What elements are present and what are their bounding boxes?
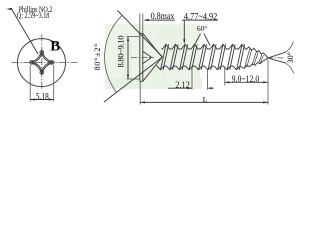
phillips recess outer xyxy=(29,50,54,74)
80 deg angle lines xyxy=(104,11,163,103)
recess side profile xyxy=(143,51,152,63)
dim 2.12 xyxy=(168,69,214,90)
svg-text:30°: 30° xyxy=(286,52,295,64)
dim 8.80~9.10 xyxy=(115,36,139,80)
80 deg arc xyxy=(105,15,123,92)
head side outline xyxy=(140,33,162,81)
phillips recess inner xyxy=(32,53,52,72)
dim 9.0~12.0 xyxy=(225,67,268,86)
watermark bar vertical left xyxy=(123,38,132,79)
svg-text:L: L xyxy=(203,95,208,104)
dim 0.8max xyxy=(140,10,175,33)
watermark block upper right xyxy=(176,29,187,46)
dim 4.77~4.92 xyxy=(182,11,218,44)
thread coil bands xyxy=(161,44,264,70)
svg-text:4.77~4.92: 4.77~4.92 xyxy=(184,11,217,21)
svg-text:Q: 2.59~3.18: Q: 2.59~3.18 xyxy=(17,11,50,20)
head front view circle xyxy=(18,39,66,87)
svg-text:9.0~12.0: 9.0~12.0 xyxy=(232,73,260,84)
tip 30 deg lines xyxy=(269,42,296,74)
watermark bar bottom left xyxy=(109,78,143,89)
label 60 deg + flank lines xyxy=(194,24,210,45)
watermark patch bottom right xyxy=(190,78,202,89)
svg-text:5.18: 5.18 xyxy=(36,92,49,102)
svg-text:60°: 60° xyxy=(197,24,207,33)
watermark block mid xyxy=(152,64,167,86)
svg-text:80°±2°: 80°±2° xyxy=(93,44,102,71)
svg-text:0.8max: 0.8max xyxy=(151,10,175,21)
recess tip circles xyxy=(40,51,44,55)
watermark block mid upper xyxy=(166,41,181,57)
svg-text:2.12: 2.12 xyxy=(175,80,190,90)
note Phillips NO.2 Q: 2.59~3.18 xyxy=(17,5,53,20)
threads top zigzag xyxy=(161,44,268,57)
axis centerline xyxy=(131,56,154,58)
svg-text:B: B xyxy=(50,38,60,54)
threads bottom zigzag xyxy=(157,58,268,70)
svg-text:8.80~9.10: 8.80~9.10 xyxy=(115,36,125,68)
watermark veil xyxy=(105,24,202,89)
watermark patch top mid xyxy=(157,30,185,40)
centerline vertical xyxy=(41,35,43,90)
leader arrow to recess xyxy=(6,8,38,54)
dim 5.18 xyxy=(30,65,54,102)
dim L xyxy=(140,60,268,105)
centerline horizontal xyxy=(12,62,78,64)
